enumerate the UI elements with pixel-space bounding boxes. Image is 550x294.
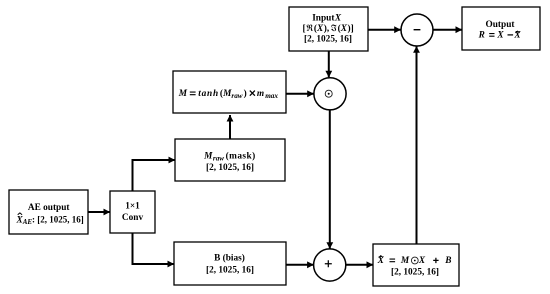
box B bias (174, 242, 286, 285)
svg-text:max: max (265, 92, 278, 100)
svg-text:1×1: 1×1 (125, 202, 140, 212)
svg-text:m: m (257, 89, 264, 99)
svg-text:X: X (340, 24, 348, 34)
wire AE output to Conv (88, 211, 110, 213)
node minus circle (401, 14, 433, 46)
svg-text:B: B (444, 256, 451, 266)
svg-text:[2, 1025, 16]: [2, 1025, 16] (206, 266, 254, 276)
hat over X AE (18, 213, 22, 215)
wire B to plus (286, 264, 314, 266)
svg-text:X: X (418, 256, 426, 266)
wire Conv up to Mraw (133, 160, 176, 191)
wire Xhat up to minus (416, 46, 418, 244)
svg-text:B (bias): B (bias) (214, 253, 245, 264)
row real imag (303, 23, 354, 34)
svg-text:M: M (203, 152, 213, 162)
box Input X (289, 7, 368, 51)
svg-text:tanh: tanh (198, 89, 219, 99)
minus sign (508, 34, 514, 36)
hat over X (516, 31, 520, 32)
node odot multiply circle (314, 78, 346, 110)
times sign (250, 91, 255, 96)
box Xhat equation (373, 244, 459, 286)
svg-text:X: X (513, 31, 521, 41)
equals sign (390, 259, 396, 262)
wire minus to Output (433, 29, 462, 31)
glyph frak I (331, 25, 336, 32)
glyph frak R (307, 24, 313, 31)
svg-text:X: X (496, 31, 504, 41)
wire Input right to minus (368, 29, 401, 31)
equals sign (489, 34, 494, 37)
wire tanh to odot (286, 93, 314, 95)
svg-text:[2, 1025, 16]: [2, 1025, 16] (206, 163, 254, 173)
box Output (462, 7, 540, 50)
svg-text:M: M (178, 89, 188, 99)
wire Conv down to B (133, 233, 175, 264)
svg-text:Input: Input (312, 14, 335, 24)
svg-text:(mask): (mask) (226, 151, 256, 162)
plus sign (433, 258, 438, 263)
node plus circle (314, 249, 346, 281)
svg-text:[: [ (303, 24, 306, 34)
svg-text:[2, 1025, 16]: [2, 1025, 16] (304, 35, 352, 45)
odot symbol in equation (411, 257, 418, 264)
equals sign (190, 92, 196, 95)
svg-text:[2, 1025, 16]: [2, 1025, 16] (391, 268, 439, 278)
wire Mraw up to tanh (229, 115, 231, 139)
svg-text:),: ), (324, 23, 329, 34)
svg-text:R: R (478, 31, 485, 41)
svg-text:M: M (400, 256, 410, 266)
svg-text:): ) (244, 88, 247, 99)
svg-text:)]: )] (348, 23, 354, 34)
box M equals tanh (173, 71, 286, 113)
svg-text:Output: Output (486, 20, 516, 30)
hat over X (379, 256, 383, 258)
box AE output (9, 190, 88, 234)
wire Input down to odot (328, 51, 330, 77)
wire odot down to plus (329, 110, 331, 249)
svg-text:raw: raw (231, 92, 242, 100)
svg-text:AE output: AE output (28, 203, 70, 213)
svg-text:X: X (377, 256, 385, 266)
svg-text:Conv: Conv (122, 213, 144, 223)
svg-text:raw: raw (213, 154, 224, 162)
box 1x1 Conv (110, 191, 155, 233)
wire plus to Xhat box (346, 264, 373, 266)
svg-text:X: X (334, 14, 342, 24)
svg-text:X: X (316, 24, 324, 34)
box Mraw mask (175, 139, 285, 181)
